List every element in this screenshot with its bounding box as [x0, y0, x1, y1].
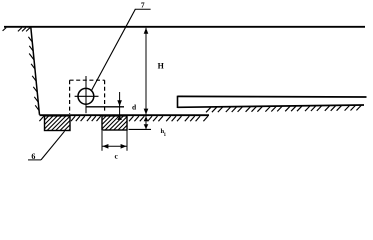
pipe 7 longitudinal top line — [178, 95, 367, 98]
dashed clearance box top edge — [70, 79, 105, 81]
trench bottom earth ticks right of sleeper 2 — [129, 116, 134, 121]
sleeper block (middle) hatch — [102, 116, 106, 120]
trench bottom line — [40, 114, 210, 116]
dimension c right arrow — [121, 144, 127, 149]
slope hatch ticks — [28, 37, 32, 42]
sleeper block (middle) outline — [102, 116, 127, 130]
dimension c left extension line — [101, 131, 103, 151]
dashed clearance box left edge — [69, 80, 71, 114]
bench earth ticks under pipe — [206, 107, 211, 112]
svg-text:d: d — [132, 103, 137, 112]
dimension c left arrow — [102, 144, 108, 149]
ground hatch ticks left end — [3, 28, 7, 31]
sleeper block 6 hatch — [45, 116, 49, 120]
svg-text:c: c — [115, 152, 119, 161]
trench slope line — [31, 27, 40, 115]
label 7 underline — [135, 8, 151, 10]
dimension d upper arrow — [117, 100, 122, 106]
pipe vertical centerline — [85, 76, 87, 113]
leader line to pipe 7 — [92, 9, 136, 90]
dimension h1 top arrow — [144, 116, 149, 121]
svg-text:1: 1 — [164, 133, 167, 138]
trench bottom earth ticks left of sleeper — [39, 116, 43, 121]
sleeper block 6 (left) outline — [45, 116, 71, 131]
dimension H bottom arrow — [144, 109, 149, 115]
ground surface line — [4, 26, 365, 28]
pipe 7 longitudinal bottom line — [178, 105, 365, 107]
trench bottom earth ticks between sleepers — [71, 116, 75, 121]
h1 extension line — [129, 128, 152, 130]
dimension c line — [102, 145, 127, 147]
dimension d lower arrow — [117, 116, 122, 121]
label 6 underline — [28, 159, 41, 161]
svg-text:H: H — [158, 61, 165, 70]
pipe 7 left end edge — [177, 96, 179, 108]
dimension d line — [119, 92, 121, 118]
dimension c right extension line — [126, 131, 128, 151]
dashed clearance box right edge — [104, 80, 106, 112]
dimension H line — [145, 28, 147, 130]
dimension h1 bottom arrow — [144, 124, 149, 129]
pipe 7 cross-section circle — [78, 88, 94, 104]
pipe horizontal centerline — [75, 95, 99, 97]
pipe invert reference line (d upper) — [86, 106, 124, 108]
svg-text:7: 7 — [141, 1, 145, 10]
leader line to sleeper 6 — [41, 131, 65, 160]
dimension H top arrow — [144, 28, 149, 34]
